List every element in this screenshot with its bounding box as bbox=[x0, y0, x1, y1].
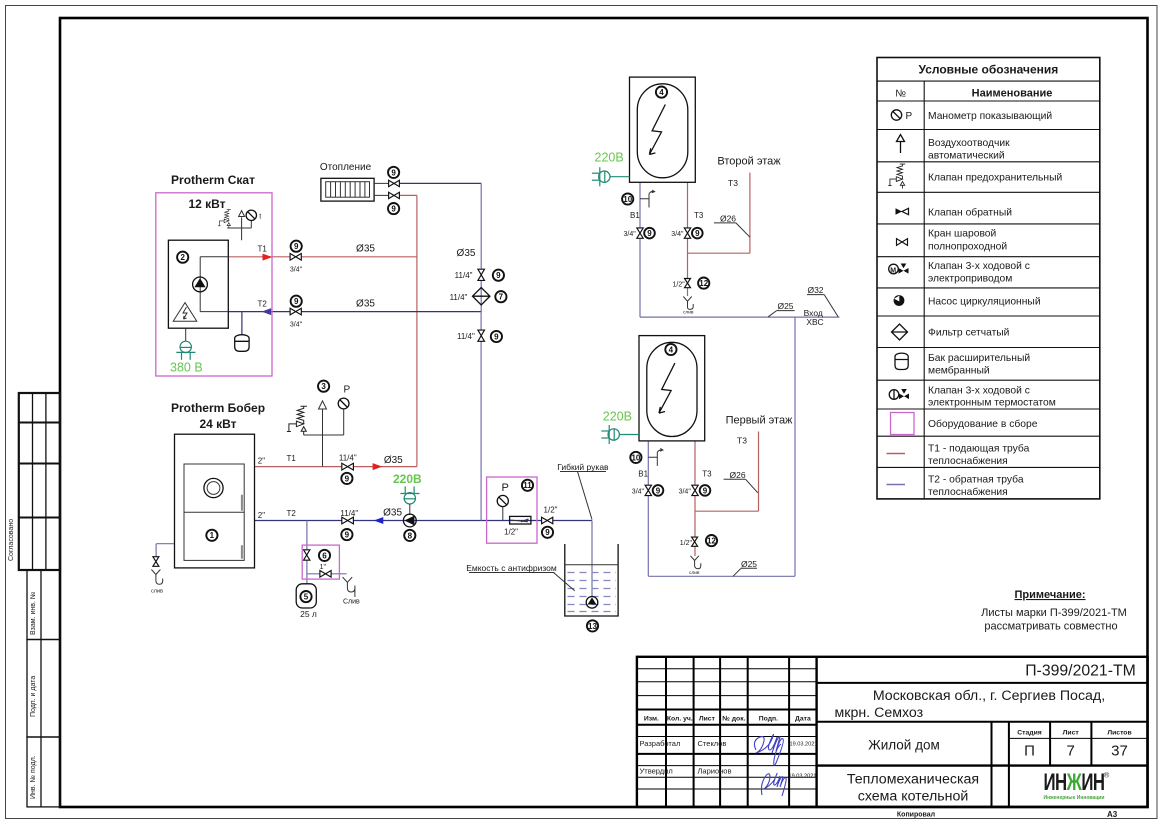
svg-text:6: 6 bbox=[322, 551, 327, 560]
svg-text:Первый этаж: Первый этаж bbox=[726, 414, 793, 426]
svg-text:11/4": 11/4" bbox=[450, 293, 468, 302]
svg-text:3/4": 3/4" bbox=[632, 488, 645, 495]
svg-text:Т3: Т3 bbox=[694, 211, 704, 220]
svg-text:рассматривать совместно: рассматривать совместно bbox=[984, 621, 1117, 633]
svg-text:9: 9 bbox=[545, 528, 550, 537]
svg-text:Ø35: Ø35 bbox=[356, 299, 375, 310]
svg-text:Воздухоотводчик: Воздухоотводчик bbox=[928, 138, 1010, 149]
svg-text:Т1: Т1 bbox=[287, 454, 297, 463]
svg-text:3/4": 3/4" bbox=[290, 321, 303, 328]
svg-text:Фильтр сетчатый: Фильтр сетчатый bbox=[928, 328, 1010, 339]
svg-text:25 л: 25 л bbox=[300, 609, 317, 619]
svg-text:9: 9 bbox=[294, 297, 299, 306]
svg-text:Кран шаровой: Кран шаровой bbox=[928, 229, 997, 240]
svg-text:P: P bbox=[344, 385, 351, 396]
svg-text:9: 9 bbox=[647, 229, 652, 238]
svg-text:слив: слив bbox=[683, 311, 694, 316]
svg-text:Тепломеханическая: Тепломеханическая bbox=[847, 772, 979, 788]
svg-text:3/4": 3/4" bbox=[290, 267, 303, 274]
svg-text:1: 1 bbox=[210, 531, 215, 540]
svg-text:Слив: Слив bbox=[343, 599, 360, 606]
svg-text:Т2: Т2 bbox=[287, 509, 297, 518]
svg-text:электронным термостатом: электронным термостатом bbox=[928, 398, 1056, 409]
svg-text:ИНЖИН: ИНЖИН bbox=[1043, 769, 1104, 795]
svg-text:Подп. и дата: Подп. и дата bbox=[30, 676, 37, 717]
svg-text:мембранный: мембранный bbox=[928, 365, 990, 377]
svg-text:Гибкий рукав: Гибкий рукав bbox=[557, 462, 609, 472]
svg-text:Ø25: Ø25 bbox=[777, 301, 793, 311]
svg-text:мкрн. Семхоз: мкрн. Семхоз bbox=[835, 705, 924, 721]
svg-text:220В: 220В bbox=[393, 472, 422, 486]
svg-text:Листов: Листов bbox=[1107, 730, 1131, 737]
svg-text:Наименование: Наименование bbox=[972, 88, 1053, 100]
svg-text:3/4": 3/4" bbox=[671, 231, 684, 238]
svg-text:t: t bbox=[259, 213, 261, 220]
svg-text:1": 1" bbox=[320, 564, 327, 571]
svg-text:Бак расширительный: Бак расширительный bbox=[928, 353, 1030, 364]
svg-text:19.03.2021: 19.03.2021 bbox=[790, 742, 818, 748]
svg-text:№ док.: № док. bbox=[722, 716, 745, 723]
svg-text:Примечание:: Примечание: bbox=[1014, 589, 1085, 601]
svg-text:P: P bbox=[502, 482, 509, 494]
svg-text:4: 4 bbox=[669, 345, 674, 354]
svg-text:Клапан 3-х ходовой с: Клапан 3-х ходовой с bbox=[928, 261, 1030, 272]
svg-text:Изм.: Изм. bbox=[644, 716, 659, 723]
svg-text:Условные обозначения: Условные обозначения bbox=[918, 63, 1058, 77]
svg-text:380 В: 380 В bbox=[170, 361, 203, 375]
svg-text:Лист: Лист bbox=[1063, 730, 1080, 737]
svg-text:Ø35: Ø35 bbox=[457, 248, 476, 259]
svg-text:13: 13 bbox=[588, 622, 597, 631]
svg-text:12: 12 bbox=[699, 279, 708, 288]
svg-text:1/2": 1/2" bbox=[680, 540, 693, 547]
svg-text:А3: А3 bbox=[1107, 810, 1118, 819]
svg-text:Оборудование в сборе: Оборудование в сборе bbox=[928, 418, 1038, 430]
svg-text:12: 12 bbox=[707, 537, 716, 546]
svg-text:8: 8 bbox=[408, 531, 413, 540]
svg-text:слив: слив bbox=[689, 571, 700, 576]
svg-text:Т3: Т3 bbox=[702, 470, 712, 479]
svg-text:М: М bbox=[890, 267, 896, 274]
svg-text:11/4": 11/4" bbox=[339, 454, 357, 463]
svg-text:220В: 220В bbox=[595, 151, 624, 165]
svg-text:Копировал: Копировал bbox=[897, 812, 935, 819]
svg-text:Т2: Т2 bbox=[258, 300, 268, 309]
svg-text:Утвердил: Утвердил bbox=[640, 767, 673, 776]
svg-text:11: 11 bbox=[523, 481, 532, 490]
svg-text:Манометр показывающий: Манометр показывающий bbox=[928, 111, 1052, 122]
svg-text:Инв. № подл.: Инв. № подл. bbox=[30, 755, 37, 799]
svg-text:полнопроходной: полнопроходной bbox=[928, 242, 1007, 253]
svg-text:Жилой дом: Жилой дом bbox=[868, 738, 940, 753]
svg-text:Клапан обратный: Клапан обратный bbox=[928, 207, 1012, 219]
svg-text:11/4": 11/4" bbox=[457, 332, 475, 341]
svg-text:7: 7 bbox=[1067, 743, 1075, 760]
svg-text:Ø35: Ø35 bbox=[384, 455, 403, 466]
svg-text:2": 2" bbox=[258, 511, 265, 520]
svg-text:Ø32: Ø32 bbox=[807, 285, 823, 295]
svg-text:Согласовано: Согласовано bbox=[8, 519, 15, 561]
svg-text:П-399/2021-ТМ: П-399/2021-ТМ bbox=[1025, 663, 1136, 680]
svg-text:Protherm Скат: Protherm Скат bbox=[171, 173, 255, 187]
svg-text:®: ® bbox=[1104, 771, 1110, 780]
svg-text:Т1 - подающая труба: Т1 - подающая труба bbox=[928, 443, 1030, 455]
svg-text:Отопление: Отопление bbox=[320, 162, 372, 173]
svg-text:теплоснабжения: теплоснабжения bbox=[928, 455, 1008, 467]
svg-text:Т1: Т1 bbox=[258, 245, 268, 254]
svg-text:9: 9 bbox=[391, 205, 396, 214]
svg-text:Клапан предохранительный: Клапан предохранительный bbox=[928, 173, 1062, 184]
svg-text:11/4": 11/4" bbox=[455, 271, 473, 280]
svg-text:Ø25: Ø25 bbox=[741, 559, 757, 569]
svg-text:1/2": 1/2" bbox=[504, 528, 518, 537]
svg-text:37: 37 bbox=[1111, 743, 1128, 760]
svg-text:П: П bbox=[1024, 743, 1035, 760]
svg-text:схема котельной: схема котельной bbox=[858, 789, 969, 805]
svg-text:слив: слив bbox=[151, 589, 163, 595]
svg-text:3: 3 bbox=[321, 382, 326, 391]
svg-text:Стадия: Стадия bbox=[1017, 730, 1042, 737]
svg-text:Стеклов: Стеклов bbox=[698, 739, 727, 748]
svg-text:12 кВт: 12 кВт bbox=[188, 197, 225, 211]
svg-text:9: 9 bbox=[494, 332, 499, 341]
svg-text:3/4": 3/4" bbox=[624, 231, 637, 238]
svg-text:Клапан 3-х ходовой с: Клапан 3-х ходовой с bbox=[928, 386, 1030, 397]
svg-text:Ø35: Ø35 bbox=[356, 244, 375, 255]
svg-text:10: 10 bbox=[631, 453, 640, 462]
svg-text:ХВС: ХВС bbox=[806, 317, 823, 327]
svg-text:Дата: Дата bbox=[795, 716, 811, 723]
svg-text:Инженерные Инновации: Инженерные Инновации bbox=[1044, 795, 1105, 801]
svg-text:1/2": 1/2" bbox=[544, 506, 558, 515]
svg-text:электроприводом: электроприводом bbox=[928, 274, 1012, 285]
svg-text:Второй этаж: Второй этаж bbox=[717, 155, 781, 167]
svg-text:Подп.: Подп. bbox=[759, 716, 778, 723]
svg-text:Насос циркуляционный: Насос циркуляционный bbox=[928, 297, 1041, 308]
svg-text:1/2": 1/2" bbox=[673, 281, 686, 288]
svg-text:Ø26: Ø26 bbox=[720, 214, 736, 224]
svg-text:Кол. уч.: Кол. уч. bbox=[667, 716, 693, 723]
svg-text:Т3: Т3 bbox=[737, 435, 747, 445]
svg-text:5: 5 bbox=[304, 593, 309, 602]
svg-text:автоматический: автоматический bbox=[928, 151, 1005, 162]
svg-text:Т2 - обратная труба: Т2 - обратная труба bbox=[928, 474, 1024, 486]
svg-text:4: 4 bbox=[659, 88, 664, 97]
svg-text:7: 7 bbox=[499, 293, 504, 302]
svg-text:19.03.2021: 19.03.2021 bbox=[789, 774, 817, 780]
svg-text:Разработал: Разработал bbox=[640, 739, 681, 748]
svg-text:2": 2" bbox=[258, 456, 265, 465]
svg-text:В1: В1 bbox=[638, 470, 648, 479]
svg-text:9: 9 bbox=[496, 271, 501, 280]
svg-text:Взам. инв. №: Взам. инв. № bbox=[30, 592, 37, 635]
svg-text:Листы марки П-399/2021-ТМ: Листы марки П-399/2021-ТМ bbox=[981, 607, 1127, 619]
svg-text:9: 9 bbox=[703, 486, 708, 495]
svg-text:Емкость с антифризом: Емкость с антифризом bbox=[466, 563, 557, 573]
svg-text:Т3: Т3 bbox=[728, 178, 738, 188]
svg-text:Р: Р bbox=[906, 111, 913, 122]
svg-text:9: 9 bbox=[294, 242, 299, 251]
svg-text:11/4": 11/4" bbox=[340, 509, 358, 518]
svg-text:№: № bbox=[895, 89, 906, 100]
svg-text:9: 9 bbox=[391, 168, 396, 177]
svg-text:Protherm Бобер: Protherm Бобер bbox=[171, 401, 265, 415]
svg-text:Лист: Лист bbox=[699, 716, 716, 723]
svg-text:10: 10 bbox=[623, 195, 632, 204]
svg-text:9: 9 bbox=[345, 474, 350, 483]
svg-text:2: 2 bbox=[180, 253, 185, 262]
svg-text:Ларионов: Ларионов bbox=[698, 767, 732, 776]
svg-text:3/4": 3/4" bbox=[679, 488, 692, 495]
svg-text:Ø35: Ø35 bbox=[383, 508, 402, 519]
svg-text:24 кВт: 24 кВт bbox=[199, 417, 236, 431]
svg-text:В1: В1 bbox=[630, 211, 640, 220]
svg-text:теплоснабжения: теплоснабжения bbox=[928, 486, 1008, 498]
svg-text:9: 9 bbox=[695, 229, 700, 238]
svg-text:9: 9 bbox=[656, 486, 661, 495]
svg-text:Московская обл., г. Сергиев По: Московская обл., г. Сергиев Посад, bbox=[873, 688, 1105, 704]
svg-text:9: 9 bbox=[345, 531, 350, 540]
svg-text:Ø26: Ø26 bbox=[730, 470, 746, 480]
svg-text:220В: 220В bbox=[603, 410, 632, 424]
